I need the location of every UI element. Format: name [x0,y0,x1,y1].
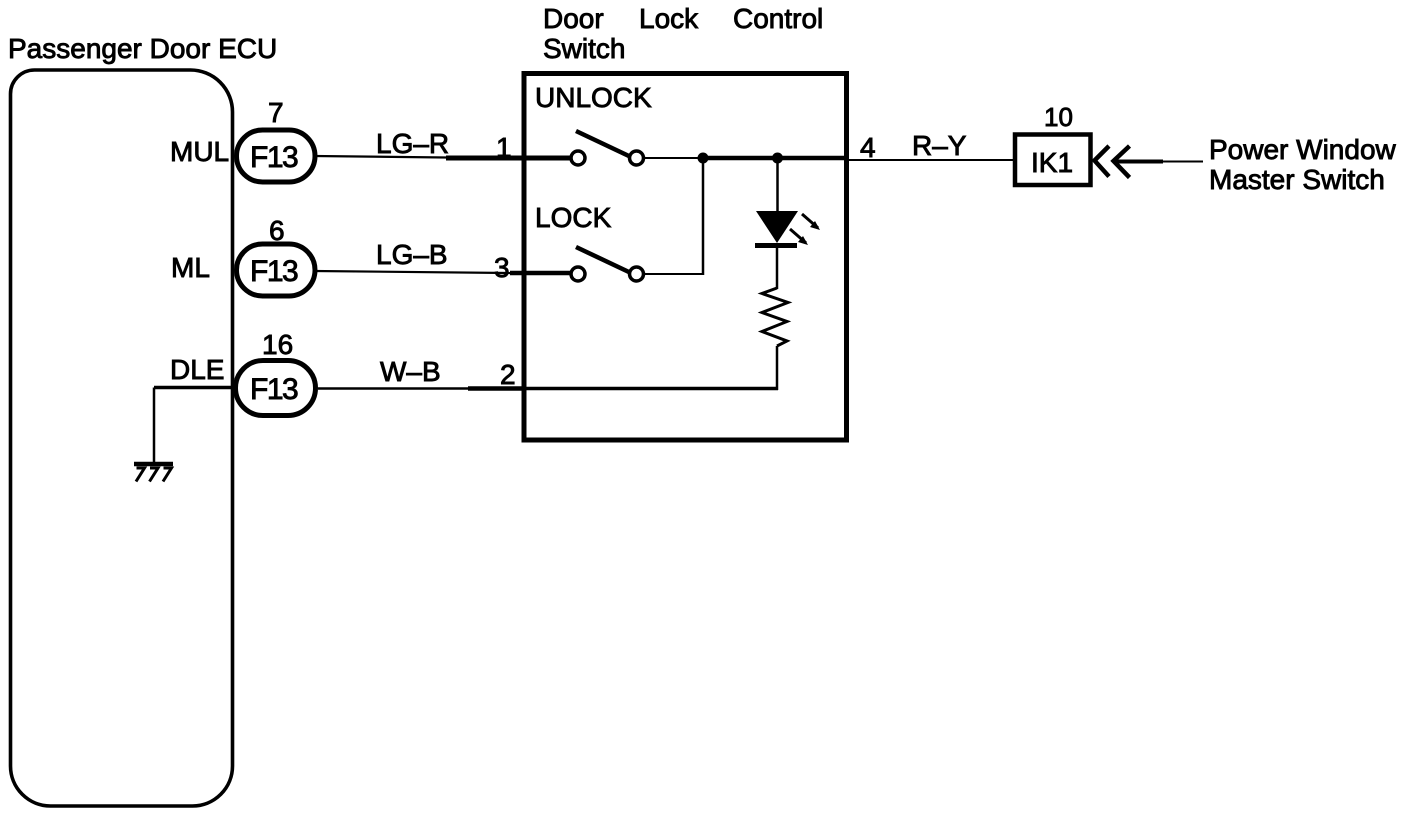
svg-text:LG–B: LG–B [376,239,448,270]
svg-text:1: 1 [496,132,512,163]
wire R-Y from pin 4 to IK1 [849,159,1015,161]
junction node B [772,153,783,164]
svg-text:MUL: MUL [170,136,229,167]
connector F13 pin 7 oval [237,130,316,182]
wire W-B from DLE to pin 2 [318,387,524,390]
svg-text:Switch: Switch [543,33,625,64]
svg-text:F13: F13 [250,141,298,174]
ground symbol [134,464,173,482]
svg-text:Door: Door [543,3,604,34]
LED D1 [755,211,820,248]
svg-text:ML: ML [171,252,210,283]
svg-text:16: 16 [262,329,293,360]
wire pin 2 rail inside box [524,387,778,391]
wire resistor to pin 2 rail [776,346,779,390]
label Power Window Master Switch [1209,134,1397,195]
svg-text:6: 6 [269,215,285,246]
resistor R1 [762,288,788,346]
svg-text:DLE: DLE [170,354,224,385]
svg-text:Lock: Lock [639,3,699,34]
svg-text:UNLOCK: UNLOCK [535,82,652,113]
svg-text:7: 7 [268,97,284,128]
svg-text:F13: F13 [250,373,298,406]
svg-text:F13: F13 [250,255,298,288]
svg-text:Master Switch: Master Switch [1209,164,1385,195]
wire from unlock switch to node A [644,157,703,159]
connector IK1 box [1015,135,1091,186]
svg-text:2: 2 [500,359,516,390]
ground tap wire from DLE [154,388,236,464]
ECU body rounded rectangle [11,70,233,806]
unlock switch SW1 [571,131,644,165]
svg-text:Control: Control [733,3,823,34]
svg-text:LOCK: LOCK [535,202,612,233]
svg-text:Passenger Door ECU: Passenger Door ECU [8,33,277,64]
svg-text:Power Window: Power Window [1209,134,1397,165]
svg-text:W–B: W–B [380,356,441,387]
lock switch SW2 [571,247,644,281]
Door Lock Control Switch box [524,74,847,441]
svg-text:R–Y: R–Y [912,130,967,161]
wire from lock switch up to node A [644,158,704,275]
wire LG-B from ML to pin 3 [314,271,570,273]
wire node A to node B to pin 4 [702,156,849,161]
svg-text:4: 4 [860,132,876,163]
svg-text:LG–R: LG–R [376,128,449,159]
junction node A [698,153,709,164]
connector F13 pin 6 oval [237,244,316,296]
wire LED to resistor [776,248,779,289]
connector F13 pin 16 oval [236,361,316,416]
svg-text:IK1: IK1 [1031,147,1073,178]
svg-text:10: 10 [1044,102,1073,132]
wire to Power Window Master Switch [1114,160,1204,164]
svg-text:3: 3 [494,252,510,283]
double chevron connector arrow [1095,146,1130,178]
wire node B down to LED [776,158,779,212]
wire LG-R from MUL to pin 1 [314,156,570,158]
Door Lock Control Switch box title [543,3,823,64]
